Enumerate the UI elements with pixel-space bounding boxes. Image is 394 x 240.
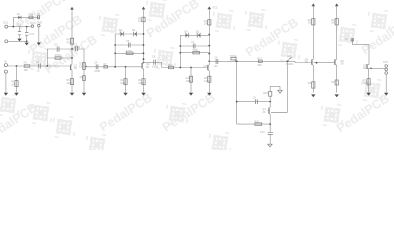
svg-text:IN: IN xyxy=(4,60,7,63)
wire tone main xyxy=(209,61,310,62)
resistor R2 xyxy=(11,81,18,87)
capacitor C8 xyxy=(214,56,218,68)
junction dot xyxy=(114,66,116,68)
wire emitter out2 xyxy=(336,65,338,92)
wire tone drop xyxy=(236,61,238,124)
ground xyxy=(70,93,74,96)
VCC arrow out1 xyxy=(312,3,315,58)
transistor Q1 xyxy=(70,64,78,71)
wire main input xyxy=(7,65,69,67)
resistor R7 xyxy=(104,63,108,68)
svg-text:Q3: Q3 xyxy=(203,65,207,68)
capacitor C1 xyxy=(36,61,40,72)
diode D4 xyxy=(184,30,188,37)
junction dot xyxy=(208,60,210,62)
ground xyxy=(14,93,18,96)
junction dot collector top xyxy=(71,48,73,50)
wire feedback left vertical xyxy=(46,49,48,66)
resistor R20 xyxy=(254,120,261,125)
svg-text:2N: 2N xyxy=(262,111,265,114)
ground xyxy=(335,94,339,97)
wire feedback top row xyxy=(47,48,84,50)
resistor R25 xyxy=(363,79,371,86)
junction dot xyxy=(26,40,28,42)
ground xyxy=(141,93,145,96)
capacitor C6 xyxy=(152,56,158,69)
svg-text:C10: C10 xyxy=(260,131,265,134)
input jack IN1 xyxy=(4,60,7,73)
resistor R17 series xyxy=(257,57,262,66)
svg-text:1M: 1M xyxy=(11,83,14,86)
capacitor C10 emitter xyxy=(260,131,273,144)
wire emitter3 xyxy=(208,71,210,93)
svg-text:2N: 2N xyxy=(74,67,77,70)
svg-text:R24: R24 xyxy=(331,81,336,84)
node input junction xyxy=(16,65,18,67)
wire bias drop stage3 xyxy=(190,68,192,93)
transistor Q2 xyxy=(141,62,150,69)
diode D5 xyxy=(17,13,21,19)
junction dot xyxy=(114,52,116,54)
wire jack sleeve xyxy=(385,74,387,92)
junction dot xyxy=(114,44,116,46)
capacitor C4 xyxy=(94,62,100,73)
svg-text:100N: 100N xyxy=(152,65,158,68)
potentiometer SUSTAIN xyxy=(79,63,88,70)
wire output xyxy=(369,67,385,69)
resistor R100 xyxy=(29,13,34,18)
capacitor C2 xyxy=(54,44,59,52)
wire sustain vertical xyxy=(83,49,85,93)
wire bias drop xyxy=(16,66,18,93)
resistor R3 xyxy=(55,54,61,59)
ground xyxy=(17,39,21,42)
resistor R24 xyxy=(331,80,338,85)
wire main 2 xyxy=(86,66,141,68)
wire rail B xyxy=(8,26,31,28)
resistor R13 xyxy=(192,49,199,54)
wire diode row stage3 xyxy=(180,34,209,36)
wire rail C xyxy=(8,40,27,42)
resistor R5 emitter xyxy=(66,79,73,85)
transistor Q7 xyxy=(363,64,369,70)
diode D2 xyxy=(119,29,124,36)
svg-text:A100K: A100K xyxy=(286,63,294,66)
wire collector sub xyxy=(271,111,287,113)
wire coupling2 xyxy=(144,62,207,67)
capacitor C101 electrolytic xyxy=(25,27,35,42)
VCC arrow stage2 xyxy=(142,7,145,61)
svg-text:2N: 2N xyxy=(340,62,343,65)
svg-text:1U: 1U xyxy=(36,69,39,72)
svg-text:470K: 470K xyxy=(55,54,61,57)
wire resistor row stage3 xyxy=(180,52,209,54)
junction dot xyxy=(208,53,210,55)
capacitor C7 xyxy=(191,41,195,48)
wire sub bottom rail xyxy=(237,123,271,125)
junction dot xyxy=(143,58,145,60)
resistor R21 xyxy=(308,19,315,25)
junction dot xyxy=(12,26,14,28)
wire base vertical stage3 xyxy=(179,35,181,67)
svg-text:100N: 100N xyxy=(74,46,80,49)
ground xyxy=(384,93,388,96)
junction dot sub rail xyxy=(269,101,271,103)
junction dot xyxy=(143,33,145,35)
net flag +9V xyxy=(37,13,40,19)
transistor Q4 xyxy=(262,102,270,115)
wire bias drop stage2 xyxy=(125,67,127,93)
potentiometer VOL wiper xyxy=(286,55,294,66)
junction dot xyxy=(179,67,181,69)
wire diode row stage2 xyxy=(115,33,143,35)
wire vcc to q7 xyxy=(352,42,369,64)
svg-text:100N: 100N xyxy=(94,70,100,73)
wire cap row stage2 xyxy=(115,44,143,46)
svg-text:C13: C13 xyxy=(29,33,34,36)
wire emitter1 xyxy=(71,70,73,92)
output jack OUT1 xyxy=(383,61,389,74)
wire vcc-arm xyxy=(270,86,280,91)
svg-text:2N: 2N xyxy=(146,66,149,69)
junction dot rail left xyxy=(236,101,238,103)
capacitor C9 xyxy=(253,96,258,104)
wire emitter to rail join xyxy=(269,124,271,128)
wire resistor row stage2 xyxy=(115,52,143,54)
resistor R14 collector xyxy=(204,20,211,26)
resistor R8 xyxy=(126,50,133,55)
resistor R6 xyxy=(80,76,86,81)
svg-text:VB: VB xyxy=(345,38,349,41)
junction dot xyxy=(208,34,210,36)
resistor R9 collector xyxy=(138,17,145,23)
wire feedback bottom row xyxy=(47,57,72,59)
ground xyxy=(25,43,29,46)
resistor R23 xyxy=(308,82,315,88)
resistor R1 xyxy=(24,61,30,71)
VCC port symbol xyxy=(31,22,36,27)
resistor R4 collector xyxy=(66,38,73,44)
resistor R16 emitter xyxy=(204,76,211,83)
transistor Q5 xyxy=(305,58,314,66)
ground xyxy=(311,94,315,97)
junction dot xyxy=(208,45,210,47)
junction dot xyxy=(370,68,372,70)
DC jack J3 xyxy=(3,22,9,43)
wire row A xyxy=(13,17,39,26)
resistor R12 xyxy=(168,64,173,69)
ground xyxy=(366,93,370,96)
ground xyxy=(123,93,127,96)
capacitor C100 xyxy=(16,23,21,38)
GND port symbol xyxy=(37,22,43,46)
ground xyxy=(207,93,211,96)
ground xyxy=(189,93,193,96)
resistor R18 collector xyxy=(263,92,272,102)
svg-text:OUT: OUT xyxy=(383,61,389,64)
junction dot xyxy=(179,52,181,54)
svg-text:VCC: VCC xyxy=(212,7,217,10)
junction dot xyxy=(46,65,48,67)
junction dot xyxy=(143,44,145,46)
ground xyxy=(4,93,8,96)
transistor Q3 xyxy=(203,61,209,71)
vcc down arrow xyxy=(278,90,282,93)
transistor Q6 xyxy=(334,58,344,66)
resistor R11 emitter xyxy=(138,79,145,85)
junction dot tone xyxy=(236,60,238,62)
svg-text:39K: 39K xyxy=(24,69,29,72)
capacitor C5 xyxy=(126,40,130,47)
wire right drop xyxy=(271,61,287,112)
ground xyxy=(268,144,272,147)
wire sub top rail xyxy=(237,101,271,103)
junction dot xyxy=(179,45,181,47)
svg-text:2N: 2N xyxy=(305,61,308,64)
junction dot xyxy=(143,52,145,54)
junction dot xyxy=(26,26,28,28)
svg-text:C12: C12 xyxy=(16,23,21,26)
svg-text:4N: 4N xyxy=(214,65,217,68)
wire pair link xyxy=(313,62,334,64)
wire cap row stage3 xyxy=(180,45,209,47)
svg-text:2N: 2N xyxy=(363,67,366,70)
junction dot bias3 xyxy=(190,67,192,69)
svg-text:R23: R23 xyxy=(308,82,313,85)
potentiometer TONE xyxy=(230,55,237,62)
VCC arrow stage3 xyxy=(208,6,218,61)
capacitor C3 coupling xyxy=(74,43,80,51)
ground xyxy=(82,93,86,96)
junction dot bias2 xyxy=(125,66,127,68)
wire emitter out1 xyxy=(312,65,314,92)
resistor R10 xyxy=(120,79,127,85)
junction dot sub bottom xyxy=(269,123,271,125)
svg-text:R18: R18 xyxy=(263,92,268,95)
VCC arrow out2 xyxy=(335,3,338,58)
junction dot collector bottom xyxy=(71,57,73,59)
wire emitter sub xyxy=(269,114,271,132)
resistor R22 xyxy=(331,19,338,25)
resistor R15 xyxy=(186,76,193,83)
svg-text:100K: 100K xyxy=(79,65,85,68)
wire input sleeve to ground xyxy=(5,73,7,92)
svg-text:DC1: DC1 xyxy=(3,22,9,25)
diode D3 xyxy=(132,29,137,36)
junction dot main-drop xyxy=(286,60,288,62)
svg-text:39K: 39K xyxy=(257,64,262,67)
VCC arrow stage1 xyxy=(70,7,73,64)
junction dot xyxy=(316,62,318,64)
wire emitter q7 xyxy=(368,69,370,93)
wire base vertical stage2 xyxy=(114,34,116,67)
watermark background xyxy=(0,0,394,163)
diode D5b xyxy=(196,30,200,37)
svg-text:VOL: VOL xyxy=(287,55,293,58)
VCC flag xyxy=(345,38,354,42)
wire emitter2 xyxy=(143,69,145,93)
